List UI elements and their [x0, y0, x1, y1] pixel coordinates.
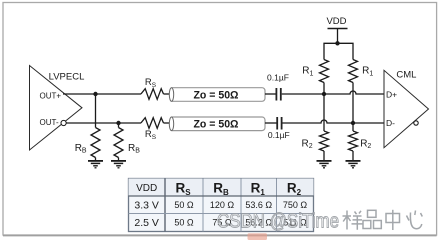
- wire tline1 to C1: [265, 93, 276, 95]
- resistor RB2: [114, 128, 140, 158]
- watermark hanzi pin: [363, 210, 381, 228]
- ground under R2a: [317, 151, 332, 168]
- svg-text:LVPECL: LVPECL: [49, 72, 85, 83]
- CML receiver U2: [384, 70, 429, 148]
- watermark hanzi xin: [407, 211, 423, 229]
- resistor R1b (right pullup): [349, 60, 374, 83]
- svg-text:750 Ω: 750 Ω: [283, 200, 308, 210]
- svg-text:53.6 Ω: 53.6 Ω: [245, 200, 272, 210]
- pink watermark fragment: [248, 233, 268, 240]
- wire RS1 to tline1: [164, 93, 170, 95]
- svg-text:OUT-: OUT-: [40, 118, 59, 127]
- wire vertical to RB1: [95, 94, 97, 128]
- svg-text:3.3 V: 3.3 V: [134, 200, 159, 212]
- svg-text:VDD: VDD: [136, 183, 157, 194]
- bubble on CML edge: [414, 121, 418, 125]
- svg-text:CML: CML: [396, 70, 416, 81]
- watermark hanzi zhong: [386, 210, 400, 230]
- svg-text:50 Ω: 50 Ω: [174, 200, 194, 210]
- capacitor C1 0.1uF: [267, 73, 289, 101]
- wire right column R1b to R2b: [352, 83, 354, 132]
- node dot D- / R1b R2b column: [351, 121, 355, 125]
- ground under RB2: [111, 158, 126, 168]
- wire vertical to RB2: [118, 123, 120, 128]
- svg-text:Zo = 50Ω: Zo = 50Ω: [194, 119, 239, 131]
- wire OUT- to Rs: [66, 122, 141, 124]
- wire C1 to D+ with hop over right column: [282, 91, 384, 94]
- svg-text:50 Ω: 50 Ω: [174, 218, 194, 228]
- svg-text:CSDN @SiTime: CSDN @SiTime: [217, 211, 339, 233]
- resistor R2a (left pulldown): [302, 131, 329, 151]
- node dot at OUT+ / RB1 junction: [93, 92, 97, 96]
- svg-text:VDD: VDD: [326, 16, 346, 27]
- svg-text:0.1µF: 0.1µF: [267, 73, 289, 83]
- inversion bubble on OUT-: [61, 120, 66, 125]
- svg-text:120 Ω: 120 Ω: [210, 200, 235, 210]
- node dot D+ / R1a R2a column: [322, 92, 326, 96]
- resistor RB1: [75, 128, 100, 158]
- watermark hanzi yang: [343, 211, 363, 230]
- ground under R2b: [346, 151, 361, 168]
- wire RS2 to tline2: [164, 122, 170, 124]
- node dot at OUT- / RB2 junction: [116, 121, 120, 125]
- LVPECL driver U1: [30, 66, 85, 151]
- VDD supply symbol: [326, 16, 347, 43]
- wire left column R1a to R2a: [323, 83, 325, 132]
- svg-text:OUT+: OUT+: [40, 91, 62, 100]
- ground under RB1: [88, 158, 103, 168]
- wire OUT+ to Rs: [63, 93, 141, 95]
- wire C2 to D- with hop over left column: [283, 120, 385, 123]
- wire tline2 to C2: [265, 122, 277, 124]
- transmission line TL2 Zo=50ohm: [169, 117, 265, 131]
- svg-text:D-: D-: [386, 118, 395, 128]
- resistor RS1 (top series): [141, 77, 164, 99]
- wire VDD tee: [324, 43, 353, 59]
- resistor R2b (right pulldown): [349, 131, 372, 151]
- value table: [129, 179, 314, 232]
- svg-text:D+: D+: [386, 89, 397, 99]
- svg-text:Zo = 50Ω: Zo = 50Ω: [194, 89, 239, 101]
- svg-text:2.5 V: 2.5 V: [134, 217, 159, 229]
- resistor R1a (left pullup): [302, 60, 328, 83]
- transmission line TL1 Zo=50ohm: [169, 88, 265, 102]
- node dot VDD tee: [335, 41, 339, 45]
- resistor RS2 (bottom series): [141, 118, 164, 141]
- svg-text:0.1µF: 0.1µF: [268, 130, 290, 140]
- capacitor C2 0.1uF: [268, 117, 290, 140]
- watermark CSDN @SiTime: [217, 210, 422, 233]
